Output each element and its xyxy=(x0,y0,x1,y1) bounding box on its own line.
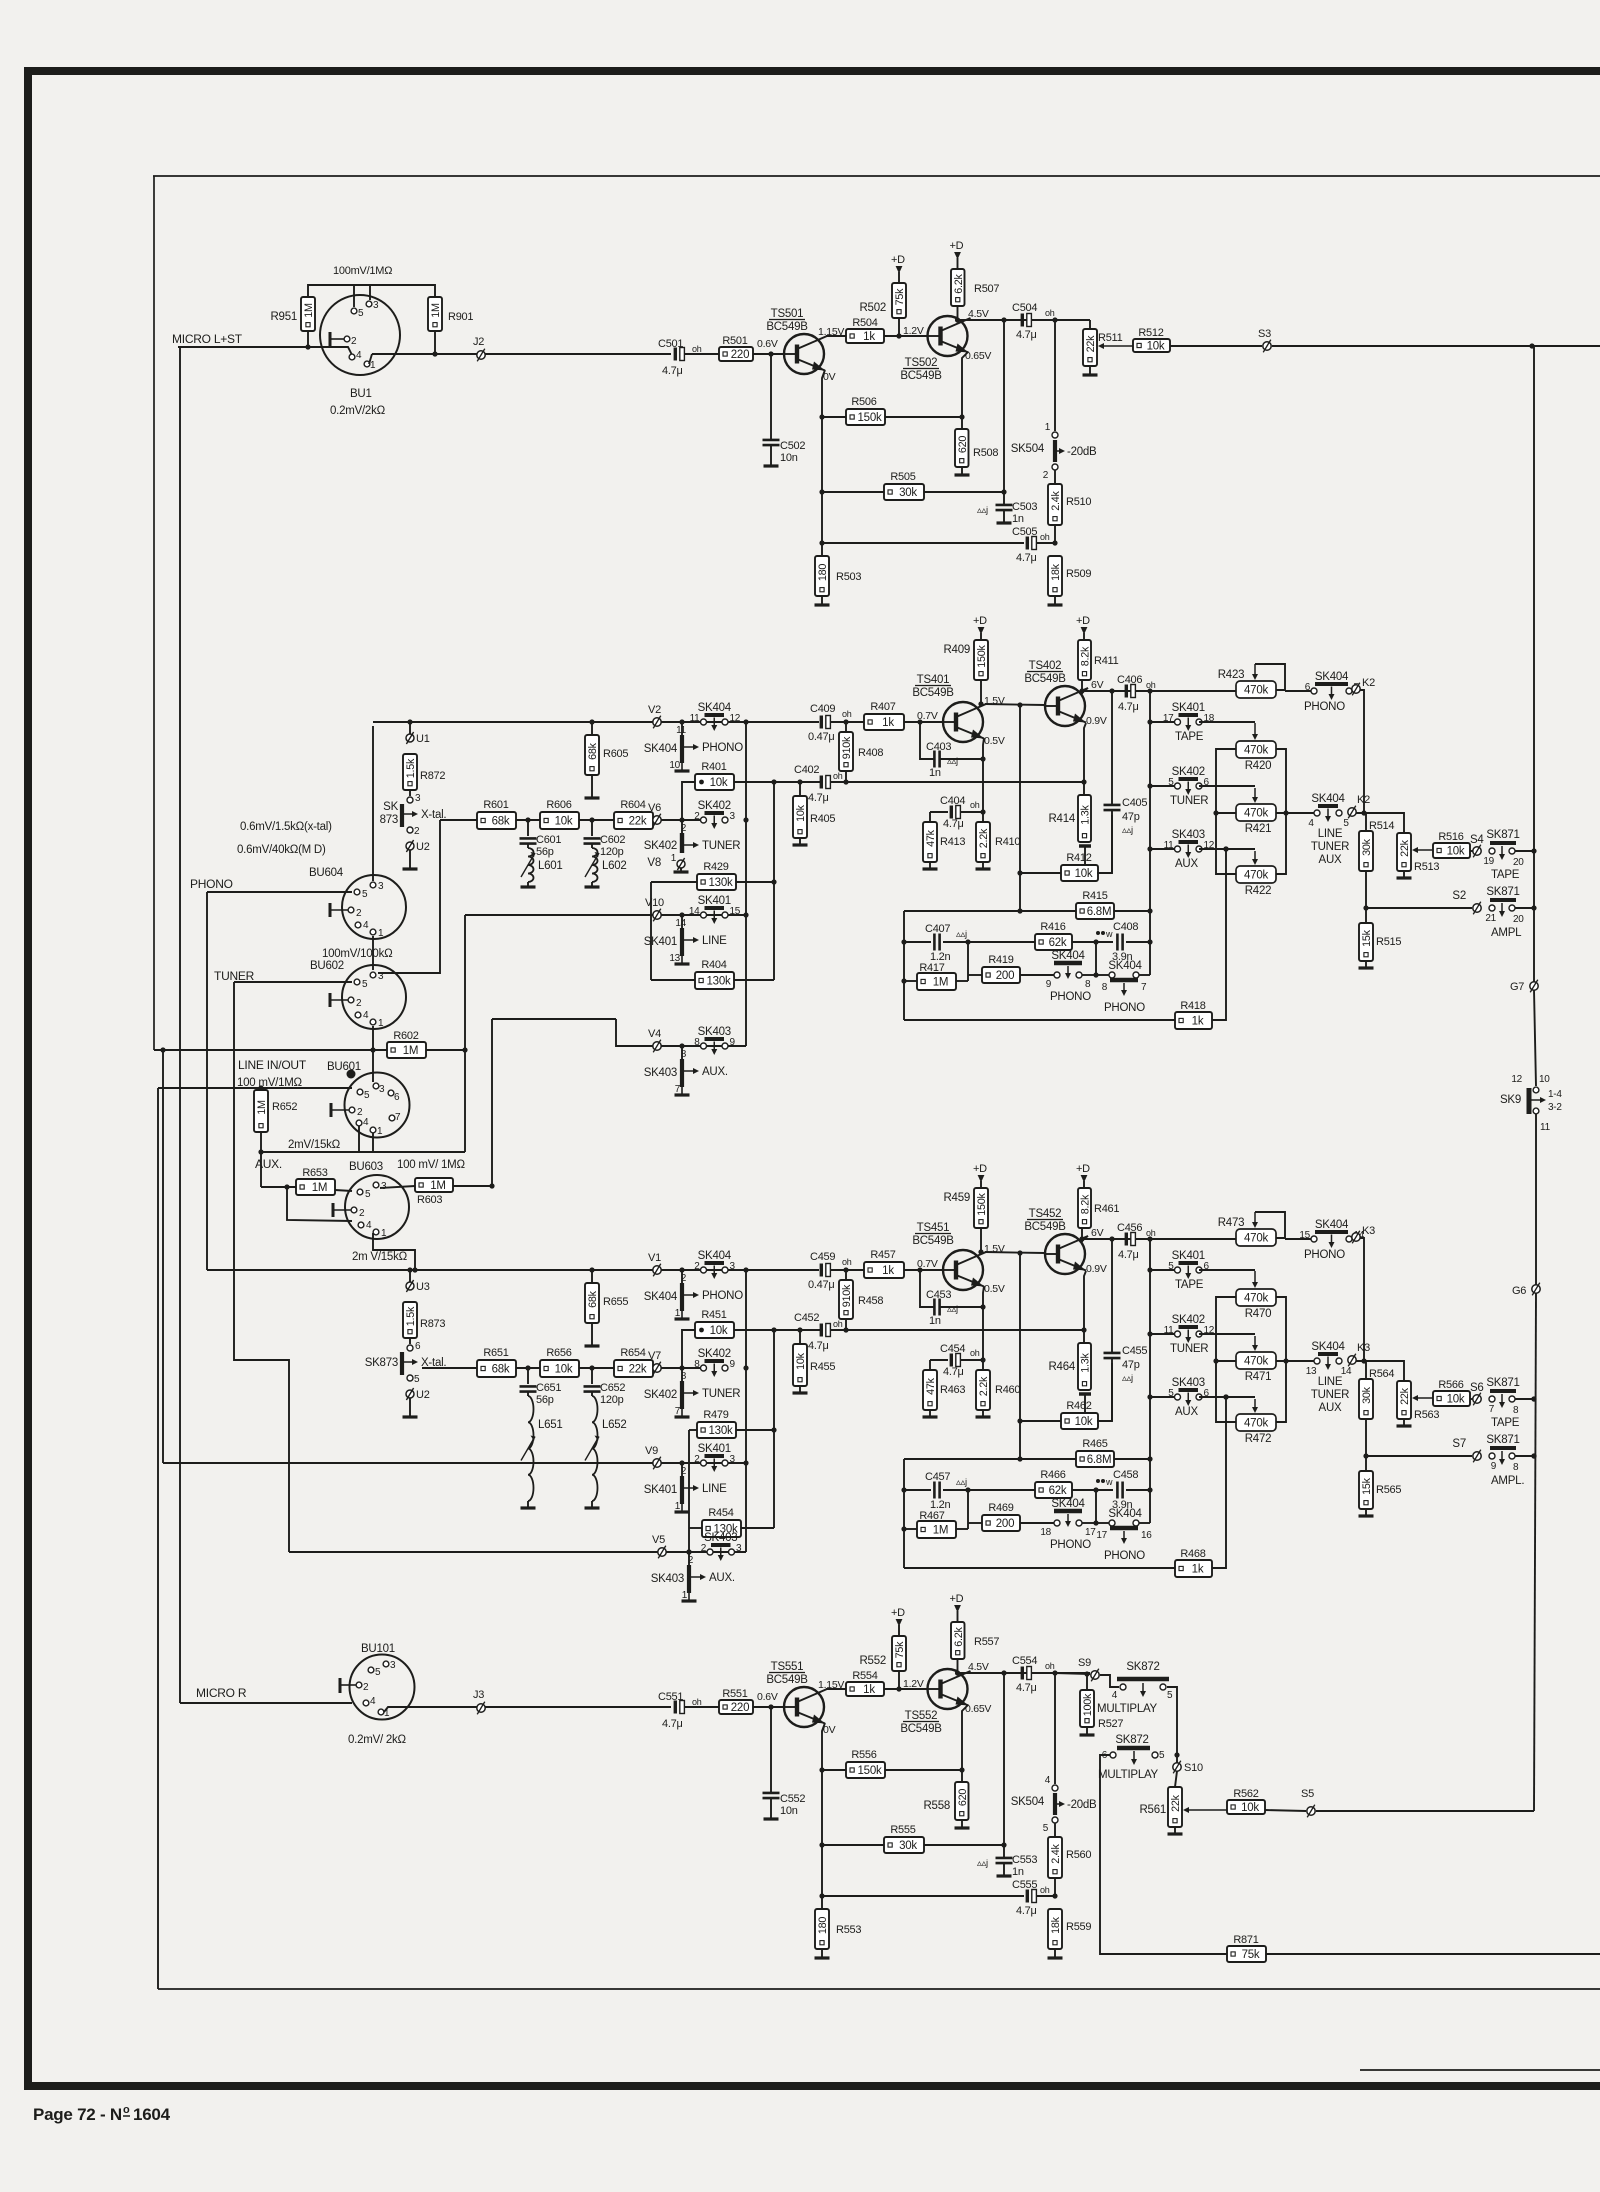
connector BU602 xyxy=(342,965,406,1029)
svg-text:L601: L601 xyxy=(538,860,563,872)
svg-text:6.2k: 6.2k xyxy=(953,273,965,293)
svg-text:S9: S9 xyxy=(1078,1657,1091,1669)
switch SK504 xyxy=(1054,320,1056,431)
wire AUX to BU603 pin4 xyxy=(287,1187,352,1221)
svg-text:1: 1 xyxy=(671,853,677,864)
resistor R451 xyxy=(682,1330,695,1367)
resistor R416 xyxy=(904,941,931,943)
svg-text:R417: R417 xyxy=(919,962,944,974)
svg-text:w: w xyxy=(1105,1477,1113,1487)
svg-text:BU603: BU603 xyxy=(349,1161,383,1173)
svg-text:SK404: SK404 xyxy=(644,743,678,755)
svg-text:AUX: AUX xyxy=(1175,858,1198,870)
svg-text:10k: 10k xyxy=(710,777,728,789)
svg-text:7: 7 xyxy=(675,1084,681,1095)
svg-text:R409: R409 xyxy=(944,644,971,656)
svg-text:5: 5 xyxy=(1168,1261,1174,1272)
svg-text:V1: V1 xyxy=(648,1252,661,1264)
resistor R515 xyxy=(1359,923,1373,961)
resistor R470 xyxy=(1236,1289,1276,1306)
inner border bottom xyxy=(158,1988,1600,1990)
svg-text:C403: C403 xyxy=(926,741,951,753)
svg-text:TAPE: TAPE xyxy=(1491,869,1520,881)
transistor TS402 xyxy=(1045,686,1085,726)
svg-text:2: 2 xyxy=(363,1682,369,1693)
jack S4 xyxy=(1473,847,1481,855)
svg-text:6.8M: 6.8M xyxy=(1087,906,1112,918)
svg-text:R501: R501 xyxy=(722,335,747,347)
capacitor C553 xyxy=(996,1857,1013,1860)
svg-text:5: 5 xyxy=(365,1189,371,1200)
svg-text:1n: 1n xyxy=(929,1315,941,1327)
capacitor C504 xyxy=(1021,314,1024,327)
svg-text:C651: C651 xyxy=(536,1382,561,1394)
wire filter row xyxy=(440,819,477,821)
switch SK404 sub-block PHONO xyxy=(679,1267,684,1272)
connector BU603 xyxy=(345,1175,409,1239)
svg-text:1.3k: 1.3k xyxy=(1080,1352,1092,1372)
svg-text:21: 21 xyxy=(1485,913,1496,924)
resistor R418 xyxy=(904,1019,1175,1021)
resistor R479 xyxy=(689,1429,697,1431)
svg-text:BC549B: BC549B xyxy=(900,370,942,382)
svg-text:47p: 47p xyxy=(1122,811,1140,823)
svg-text:8: 8 xyxy=(681,1371,687,1382)
svg-text:SK404: SK404 xyxy=(1315,1219,1349,1231)
svg-text:AUX.: AUX. xyxy=(709,1572,735,1584)
svg-text:1.3k: 1.3k xyxy=(1080,804,1092,824)
svg-text:R552: R552 xyxy=(860,1655,887,1667)
svg-text:+D: +D xyxy=(891,1607,905,1619)
svg-text:SK: SK xyxy=(383,801,398,813)
svg-text:SK401: SK401 xyxy=(644,1484,677,1496)
svg-text:TS501: TS501 xyxy=(771,308,804,320)
svg-text:0.9V: 0.9V xyxy=(1086,715,1107,727)
svg-text:5: 5 xyxy=(362,979,368,990)
svg-text:3: 3 xyxy=(730,811,736,822)
svg-text:SK404: SK404 xyxy=(1315,671,1349,683)
svg-text:BC549B: BC549B xyxy=(1024,1221,1066,1233)
wire LINE riser to V10 row xyxy=(464,915,466,1152)
resistor R460 xyxy=(976,1370,990,1410)
svg-text:R652: R652 xyxy=(272,1101,297,1113)
capacitor C651 xyxy=(527,1368,529,1384)
transistor TS452 xyxy=(1045,1234,1085,1274)
capacitor C453 xyxy=(920,1270,934,1307)
svg-text:75k: 75k xyxy=(894,1641,906,1659)
jack S3 xyxy=(1263,342,1271,350)
svg-text:▵▵j: ▵▵j xyxy=(1122,825,1133,836)
svg-text:3-2: 3-2 xyxy=(1548,1102,1562,1113)
svg-text:SK404: SK404 xyxy=(1051,1498,1085,1510)
svg-text:1n: 1n xyxy=(929,767,941,779)
svg-text:SK402: SK402 xyxy=(644,1389,677,1401)
svg-text:R566: R566 xyxy=(1438,1379,1463,1391)
svg-text:0.47μ: 0.47μ xyxy=(808,731,835,743)
resistor R419 xyxy=(968,974,982,976)
resistor R468 xyxy=(904,1567,1175,1569)
svg-text:TUNER: TUNER xyxy=(1170,1343,1208,1355)
wire C503 branch xyxy=(1003,320,1005,505)
svg-text:2: 2 xyxy=(351,336,357,347)
transistor TS551 xyxy=(784,1687,824,1727)
svg-text:1: 1 xyxy=(675,1501,681,1512)
resistor R602 xyxy=(387,1042,426,1058)
svg-text:TS401: TS401 xyxy=(917,674,950,686)
bus left column xyxy=(650,882,652,980)
svg-text:R422: R422 xyxy=(1245,885,1272,897)
svg-text:R413: R413 xyxy=(940,836,965,848)
svg-text:R551: R551 xyxy=(722,1688,747,1700)
svg-text:oh: oh xyxy=(842,709,852,719)
svg-text:C551: C551 xyxy=(658,1691,683,1703)
wire TUNER/AUX loop bus xyxy=(234,982,289,1552)
svg-text:22k: 22k xyxy=(1399,1387,1411,1405)
switch SK873 xyxy=(400,804,404,827)
svg-text:12: 12 xyxy=(730,713,741,724)
svg-text:470k: 470k xyxy=(1244,1233,1268,1245)
svg-text:SK401: SK401 xyxy=(698,1443,731,1455)
svg-text:15: 15 xyxy=(730,906,741,917)
svg-text:R558: R558 xyxy=(924,1800,951,1812)
svg-text:C457: C457 xyxy=(925,1471,950,1483)
svg-text:SK403: SK403 xyxy=(1172,829,1205,841)
svg-text:100k: 100k xyxy=(1082,1693,1094,1716)
svg-text:R508: R508 xyxy=(973,447,998,459)
svg-text:11: 11 xyxy=(690,713,701,724)
resistor R410 xyxy=(976,822,990,862)
svg-text:R421: R421 xyxy=(1245,823,1272,835)
resistor R656 xyxy=(540,1360,579,1377)
svg-text:U3: U3 xyxy=(416,1281,430,1293)
wire TS402 collector row xyxy=(1082,1236,1088,1240)
wire BU601 pin4 stub xyxy=(358,1126,360,1152)
svg-text:AMPL: AMPL xyxy=(1491,927,1522,939)
bottom right partial line xyxy=(1360,2069,1600,2071)
switch SK403 AUX xyxy=(1150,1396,1174,1398)
wire AUX row xyxy=(616,1019,746,1046)
svg-text:1.5V: 1.5V xyxy=(984,695,1005,707)
capacitor C409 xyxy=(746,721,819,723)
svg-text:2: 2 xyxy=(694,1261,700,1272)
switch SK402 TUNER xyxy=(1150,1333,1174,1335)
svg-text:1: 1 xyxy=(381,1228,387,1239)
svg-text:C407: C407 xyxy=(925,923,950,935)
svg-text:4: 4 xyxy=(1112,1690,1118,1701)
wire AUX row 2mV xyxy=(261,1151,465,1153)
svg-text:1k: 1k xyxy=(863,1684,875,1696)
svg-text:470k: 470k xyxy=(1244,870,1268,882)
wire TS502 emitter xyxy=(962,352,968,429)
svg-text:R502: R502 xyxy=(860,302,887,314)
svg-text:30k: 30k xyxy=(899,1840,917,1852)
svg-text:1: 1 xyxy=(377,1126,383,1137)
svg-text:PHONO: PHONO xyxy=(190,877,233,891)
svg-text:4: 4 xyxy=(366,1220,372,1231)
svg-text:SK871: SK871 xyxy=(1486,829,1519,841)
resistor R871 xyxy=(1227,1946,1266,1962)
capacitor C503 xyxy=(996,504,1013,507)
svg-text:BC549B: BC549B xyxy=(912,1235,954,1247)
svg-text:PHONO: PHONO xyxy=(1050,1539,1091,1551)
resistor R507 xyxy=(951,269,965,306)
resistor R502 xyxy=(892,283,906,318)
svg-text:SK404: SK404 xyxy=(1108,1508,1142,1520)
svg-text:4.7μ: 4.7μ xyxy=(662,1718,683,1730)
svg-text:L602: L602 xyxy=(602,860,627,872)
svg-text:R416: R416 xyxy=(1040,921,1065,933)
svg-text:C552: C552 xyxy=(780,1793,805,1805)
svg-text:PHONO: PHONO xyxy=(702,1290,743,1302)
resistor R429 xyxy=(651,881,697,883)
resistor R458 xyxy=(845,1270,847,1280)
resistor R605 xyxy=(591,722,593,735)
svg-text:1: 1 xyxy=(675,1308,681,1319)
svg-text:470k: 470k xyxy=(1244,1293,1268,1305)
svg-text:22k: 22k xyxy=(629,1364,647,1376)
svg-text:150k: 150k xyxy=(976,1192,988,1215)
jack V9 xyxy=(653,1459,661,1467)
resistor R566 xyxy=(1417,1397,1433,1399)
svg-text:BC549B: BC549B xyxy=(766,1674,808,1686)
svg-text:R873: R873 xyxy=(420,1318,445,1330)
svg-text:C405: C405 xyxy=(1122,797,1147,809)
svg-text:BC549B: BC549B xyxy=(766,321,808,333)
resistor R654 xyxy=(614,1360,653,1377)
svg-text:10k: 10k xyxy=(710,1325,728,1337)
svg-text:S7: S7 xyxy=(1452,1438,1466,1450)
switch SK401 TAPE xyxy=(1150,1269,1174,1271)
svg-text:C553: C553 xyxy=(1012,1854,1037,1866)
svg-text:R872: R872 xyxy=(420,770,445,782)
svg-text:SK404: SK404 xyxy=(698,1250,732,1262)
svg-text:4.7μ: 4.7μ xyxy=(808,792,829,804)
svg-text:180: 180 xyxy=(817,1917,829,1935)
svg-text:4: 4 xyxy=(363,1117,369,1128)
svg-text:18k: 18k xyxy=(1050,1916,1062,1934)
svg-text:SK871: SK871 xyxy=(1486,886,1519,898)
svg-text:4.5V: 4.5V xyxy=(968,1661,989,1673)
svg-text:S3: S3 xyxy=(1258,328,1271,340)
svg-text:MULTIPLAY: MULTIPLAY xyxy=(1097,1703,1158,1715)
svg-text:SK504: SK504 xyxy=(1011,443,1045,455)
svg-text:TS551: TS551 xyxy=(771,1661,804,1673)
svg-text:30k: 30k xyxy=(899,487,917,499)
capacitor C404 xyxy=(930,811,948,813)
capacitor C407 xyxy=(933,934,936,951)
svg-text:C452: C452 xyxy=(794,1312,819,1324)
svg-text:PHONO: PHONO xyxy=(1104,1002,1145,1014)
svg-text:SK403: SK403 xyxy=(704,1532,737,1544)
wire LINE row xyxy=(465,914,746,916)
wire TS501 emitter xyxy=(822,370,825,556)
svg-text:0.65V: 0.65V xyxy=(965,350,991,362)
svg-text:2.4k: 2.4k xyxy=(1050,1843,1062,1863)
wire TS402 collector row xyxy=(1082,688,1088,692)
resistor R557 xyxy=(951,1622,965,1659)
svg-text:R408: R408 xyxy=(858,747,883,759)
resistor R510 xyxy=(1048,484,1062,525)
svg-text:AMPL.: AMPL. xyxy=(1491,1475,1524,1487)
wire C554 row to S9 xyxy=(1055,1673,1090,1674)
svg-text:TUNER: TUNER xyxy=(1170,795,1208,807)
svg-text:22k: 22k xyxy=(1170,1794,1182,1812)
inductor L602 xyxy=(591,844,593,848)
svg-text:1: 1 xyxy=(378,1018,384,1029)
svg-text:R468: R468 xyxy=(1180,1548,1205,1560)
resistor R422 xyxy=(1236,866,1276,883)
svg-text:S6: S6 xyxy=(1470,1382,1484,1394)
svg-text:R656: R656 xyxy=(546,1347,571,1359)
svg-text:SK403: SK403 xyxy=(698,1026,731,1038)
jack V6 xyxy=(653,816,661,824)
svg-text:8: 8 xyxy=(1513,1462,1519,1473)
jack V5 xyxy=(658,1548,666,1556)
svg-text:R451: R451 xyxy=(701,1309,726,1321)
svg-text:2: 2 xyxy=(359,1208,365,1219)
svg-text:873: 873 xyxy=(380,814,398,826)
svg-text:14: 14 xyxy=(689,906,700,917)
jack U1 xyxy=(409,722,411,734)
svg-text:2: 2 xyxy=(694,1454,700,1465)
wire S3 row to right bus xyxy=(1272,345,1532,347)
svg-text:C555: C555 xyxy=(1012,1879,1037,1891)
svg-text:3: 3 xyxy=(730,1454,736,1465)
svg-text:0.2mV/2kΩ: 0.2mV/2kΩ xyxy=(330,405,386,417)
resistor R511 xyxy=(1083,329,1097,366)
svg-text:SK402: SK402 xyxy=(1172,1314,1205,1326)
svg-text:9: 9 xyxy=(730,1359,736,1370)
switch SK401 TAPE xyxy=(1150,721,1174,723)
resistor R454 xyxy=(689,1527,702,1529)
svg-text:K2: K2 xyxy=(1357,794,1370,806)
svg-text:620: 620 xyxy=(957,436,969,454)
wire input loop 100mV xyxy=(308,285,435,297)
resistor R420 xyxy=(1236,741,1276,758)
svg-text:SK403: SK403 xyxy=(1172,1377,1205,1389)
svg-text:R564: R564 xyxy=(1369,1368,1394,1380)
svg-text:30k: 30k xyxy=(1361,1386,1373,1404)
svg-text:2: 2 xyxy=(681,1466,687,1477)
svg-text:4.7μ: 4.7μ xyxy=(1118,701,1139,713)
resistor R527 xyxy=(1084,1671,1089,1676)
svg-text:120p: 120p xyxy=(600,1394,624,1406)
svg-text:120p: 120p xyxy=(600,846,624,858)
wire S2 row xyxy=(1366,907,1472,909)
svg-text:R503: R503 xyxy=(836,571,861,583)
resistor R901 xyxy=(428,297,442,331)
svg-text:1k: 1k xyxy=(863,331,875,343)
svg-text:75k: 75k xyxy=(1242,1949,1260,1961)
svg-text:470k: 470k xyxy=(1244,685,1268,697)
svg-text:R473: R473 xyxy=(1218,1217,1245,1229)
wire TS401 collector xyxy=(985,1252,1045,1253)
svg-text:0.5V: 0.5V xyxy=(984,1283,1005,1295)
svg-text:R469: R469 xyxy=(988,1502,1013,1514)
resistor R421 xyxy=(1236,804,1276,821)
svg-text:47k: 47k xyxy=(925,829,937,847)
svg-text:4: 4 xyxy=(1045,1775,1051,1786)
svg-text:BC549B: BC549B xyxy=(900,1723,942,1735)
svg-text:SK403: SK403 xyxy=(651,1573,684,1585)
wire TS502 emitter xyxy=(962,1705,968,1782)
svg-text:▵▵j: ▵▵j xyxy=(947,756,958,767)
resistor R562 xyxy=(1188,1809,1227,1811)
svg-text:R404: R404 xyxy=(701,959,726,971)
svg-text:3: 3 xyxy=(415,793,421,804)
svg-text:R470: R470 xyxy=(1245,1308,1272,1320)
svg-text:5: 5 xyxy=(1159,1750,1165,1761)
resistor R414 xyxy=(1078,795,1091,842)
svg-text:R651: R651 xyxy=(483,1347,508,1359)
svg-text:6V: 6V xyxy=(1091,679,1104,691)
resistor R651 xyxy=(477,1360,516,1377)
resistor R512 xyxy=(1103,345,1133,347)
svg-text:LINE IN/OUT: LINE IN/OUT xyxy=(238,1058,307,1072)
svg-text:SK404: SK404 xyxy=(698,702,732,714)
svg-text:470k: 470k xyxy=(1244,745,1268,757)
inner thin border left upper segment (wire to LINE node) xyxy=(153,176,155,1050)
svg-text:L652: L652 xyxy=(602,1419,627,1431)
svg-text:1M: 1M xyxy=(933,977,948,989)
svg-text:TUNER: TUNER xyxy=(1311,1389,1349,1401)
svg-text:470k: 470k xyxy=(1244,1356,1268,1368)
svg-text:130k: 130k xyxy=(707,976,731,988)
resistor R464 xyxy=(1078,1343,1091,1390)
svg-text:11: 11 xyxy=(1540,1122,1551,1133)
svg-text:V7: V7 xyxy=(648,1350,661,1362)
wire LINE lower bus to V9 xyxy=(162,1050,164,1463)
wire PHONO bus xyxy=(206,892,208,1270)
svg-text:1k: 1k xyxy=(882,717,894,729)
jack K2 xyxy=(1348,808,1356,816)
svg-text:1k: 1k xyxy=(1192,1016,1204,1028)
svg-text:5: 5 xyxy=(362,889,368,900)
resistor R503 xyxy=(815,556,829,596)
svg-text:470k: 470k xyxy=(1244,808,1268,820)
svg-text:R559: R559 xyxy=(1066,1921,1091,1933)
wire filter row xyxy=(422,1367,477,1369)
inner thin border top xyxy=(153,175,1600,177)
svg-text:+D: +D xyxy=(973,1163,987,1175)
resistor R563 (potentiometer) xyxy=(1397,1381,1411,1419)
svg-text:BC549B: BC549B xyxy=(1024,673,1066,685)
svg-text:C652: C652 xyxy=(600,1382,625,1394)
svg-text:4: 4 xyxy=(356,350,362,361)
svg-text:TUNER: TUNER xyxy=(214,969,255,983)
svg-text:+D: +D xyxy=(1076,615,1090,627)
capacitor C501 xyxy=(372,353,671,355)
resistor R466 xyxy=(904,1489,931,1491)
wire selector riser C406 output xyxy=(1149,691,1151,975)
svg-text:R466: R466 xyxy=(1040,1469,1065,1481)
capacitor C601 xyxy=(527,820,529,836)
svg-text:w: w xyxy=(1105,929,1113,939)
resistor R469 xyxy=(968,1522,982,1524)
svg-text:7: 7 xyxy=(1141,982,1147,993)
svg-text:8: 8 xyxy=(681,1049,687,1060)
svg-text:SK873: SK873 xyxy=(365,1357,398,1369)
svg-text:5: 5 xyxy=(375,1667,381,1678)
svg-text:10k: 10k xyxy=(555,1364,573,1376)
inductor L601 xyxy=(527,844,529,848)
svg-text:15k: 15k xyxy=(1361,929,1373,947)
svg-text:SK401: SK401 xyxy=(1172,1250,1205,1262)
svg-text:2m V/15kΩ: 2m V/15kΩ xyxy=(352,1251,408,1263)
svg-text:R601: R601 xyxy=(483,799,508,811)
svg-text:SK404: SK404 xyxy=(1311,793,1345,805)
svg-text:18: 18 xyxy=(1040,1527,1051,1538)
